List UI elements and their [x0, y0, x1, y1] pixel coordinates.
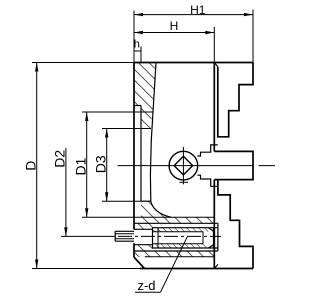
taper bore wall — [150, 63, 156, 201]
D2 extension bottom — [61, 235, 115, 237]
pinion square socket — [174, 156, 193, 175]
hatch left of bolt lower — [134, 245, 153, 251]
key socket channel bottom — [197, 175, 217, 186]
D arrows — [35, 63, 38, 269]
pinion circle — [169, 151, 198, 180]
H1 arrows — [134, 13, 253, 16]
D extension bottom — [32, 268, 140, 270]
svg-text:z-d: z-d — [137, 278, 155, 293]
bolt boss bottom line — [134, 250, 218, 252]
screw head chamfers — [209, 228, 214, 248]
dimension D3 vertical line — [106, 129, 108, 202]
D3 extension bottom — [102, 200, 141, 202]
bolt boss right edge — [217, 223, 219, 251]
back bottom chamfer — [134, 257, 145, 268]
body top face — [134, 62, 253, 64]
svg-text:h: h — [134, 39, 140, 51]
dimension h line — [134, 50, 141, 52]
screw washer edge — [157, 228, 159, 248]
extension line jaw front top — [252, 10, 254, 63]
D3 extension top — [102, 128, 151, 130]
svg-text:D3: D3 — [92, 155, 108, 173]
bore fillet arc — [151, 201, 171, 217]
D3 arrows — [105, 129, 108, 202]
dimension D2 vertical line — [65, 148, 67, 236]
svg-text:D2: D2 — [52, 150, 68, 168]
back recess step — [134, 105, 141, 107]
extension line front face top — [213, 27, 215, 63]
fine hatch screw — [153, 228, 209, 248]
z-d leader line — [161, 237, 188, 293]
D1 arrows — [85, 112, 88, 217]
jaw top profile — [218, 63, 253, 137]
screw hole outline — [134, 228, 218, 248]
front face — [213, 63, 215, 269]
svg-text:H1: H1 — [190, 3, 206, 17]
screw axis centerline — [118, 235, 221, 237]
screw socket lines — [153, 232, 204, 244]
bolt boss top line — [134, 222, 218, 224]
hatch slideway bottom section — [141, 201, 215, 223]
z-d underline — [135, 291, 161, 293]
dimension D1 vertical line — [86, 112, 88, 217]
hatch left of bolt upper — [134, 223, 153, 229]
bottom flange inner line — [145, 256, 214, 258]
jaw bottom profile — [218, 180, 253, 269]
H arrows — [134, 31, 214, 34]
back face — [133, 63, 135, 258]
front chamfer top — [214, 63, 218, 67]
dimension D vertical line — [36, 63, 38, 269]
front chamfer bottom — [214, 264, 218, 268]
D1 extension bottom — [82, 216, 215, 218]
svg-text:D: D — [23, 161, 39, 171]
D extension top — [32, 62, 134, 64]
svg-text:H: H — [170, 19, 179, 33]
body bottom face — [140, 268, 253, 270]
h extension line — [140, 47, 142, 63]
recess wall — [140, 106, 142, 202]
hatch flange top-left section — [134, 63, 156, 129]
key socket channel top — [197, 145, 217, 156]
stud protruding — [115, 231, 134, 241]
D2 arrow — [64, 227, 67, 236]
hatch bottom flange — [134, 251, 218, 258]
stud thread lines — [115, 234, 134, 239]
D1 extension top — [82, 111, 153, 113]
middle jaw boss — [214, 151, 253, 179]
main centerline — [118, 165, 275, 167]
bore bottom edge — [141, 200, 151, 202]
extension line back face top — [133, 11, 135, 63]
pinion vertical centerline — [182, 147, 184, 184]
svg-text:D1: D1 — [72, 157, 88, 175]
pinion pocket tick — [180, 181, 189, 183]
dimension H1 line — [134, 14, 253, 16]
dimension H line — [134, 32, 214, 34]
